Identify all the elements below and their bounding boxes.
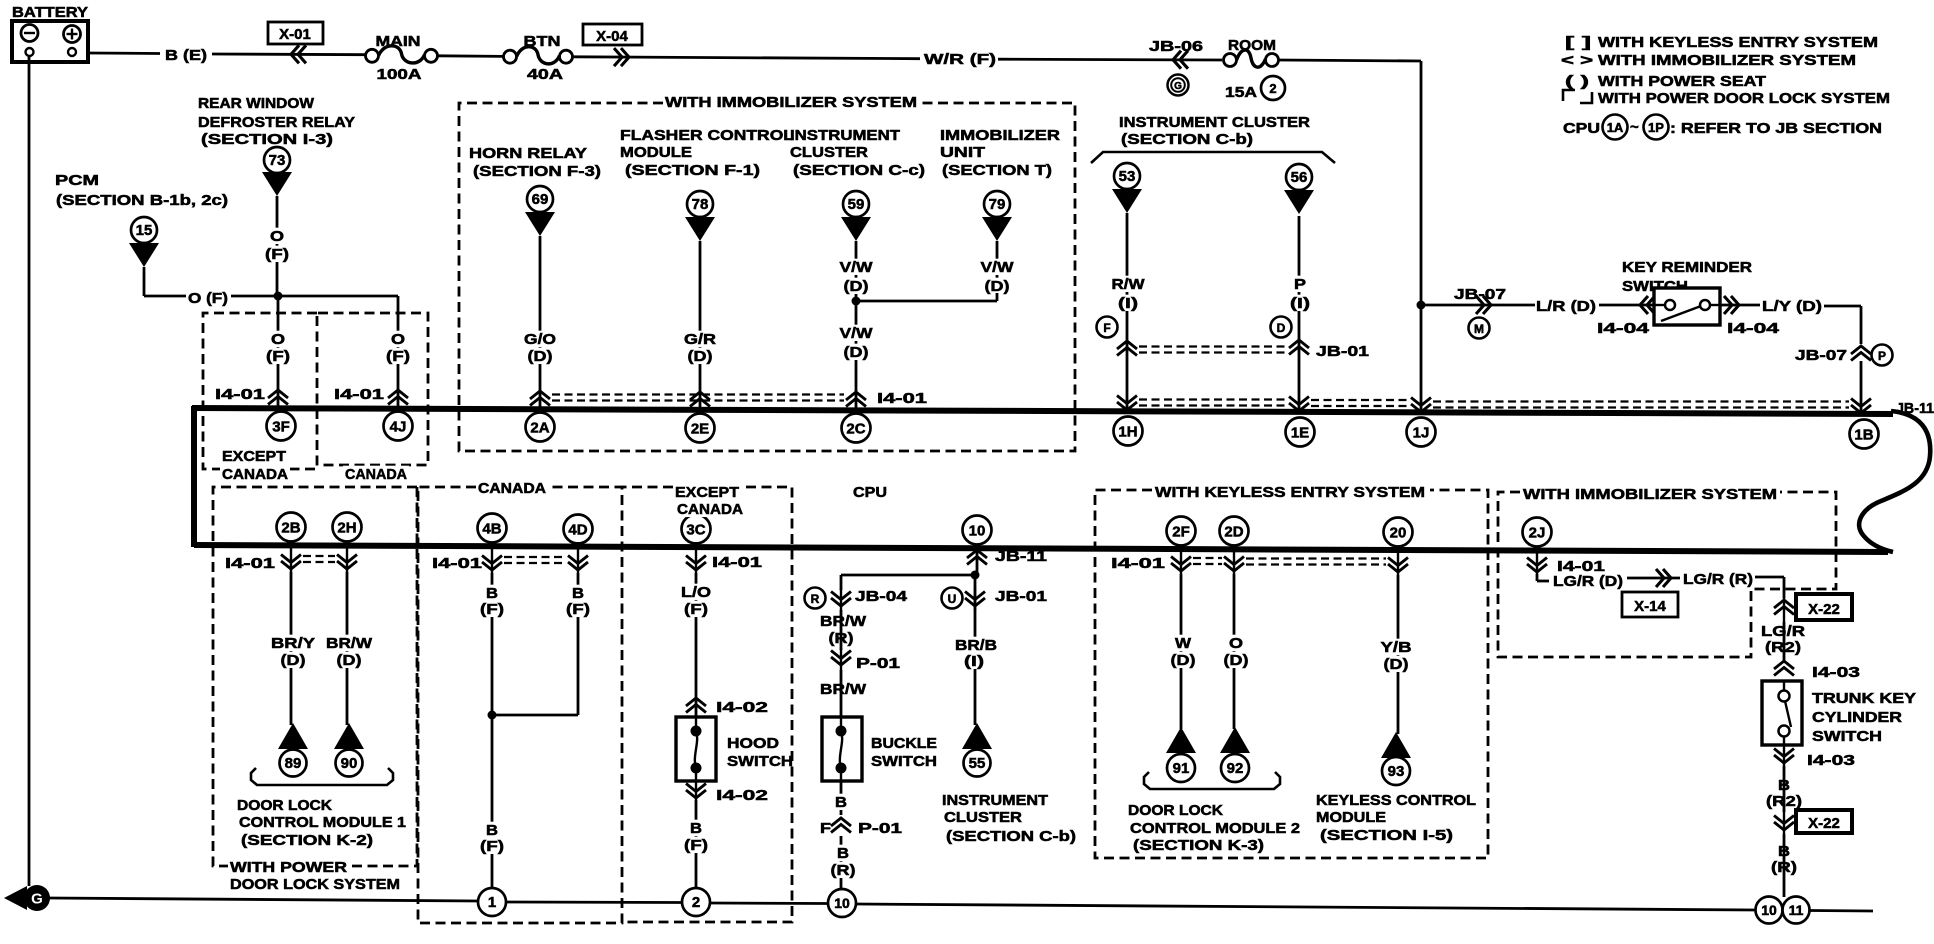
svg-text:WITH KEYLESS ENTRY SYSTEM: WITH KEYLESS ENTRY SYSTEM <box>1155 485 1425 501</box>
svg-text:DOOR LOCK: DOOR LOCK <box>1128 803 1224 819</box>
svg-text:B: B <box>486 586 498 602</box>
svg-text:73: 73 <box>269 152 286 169</box>
node 4B <box>478 514 507 543</box>
svg-text:55: 55 <box>969 755 986 772</box>
svg-text:[ ]: [ ] <box>1565 35 1591 51</box>
svg-text:1P: 1P <box>1648 120 1664 135</box>
svg-text:1B: 1B <box>1854 426 1873 443</box>
node 3F <box>267 412 296 441</box>
wire to buckle switch <box>840 670 843 717</box>
svg-text:4B: 4B <box>482 520 501 537</box>
node 1J <box>1407 418 1436 447</box>
svg-text:M: M <box>1474 322 1484 336</box>
svg-text:CANADA: CANADA <box>478 481 547 497</box>
svg-text:(D): (D) <box>688 349 713 365</box>
svg-text:2D: 2D <box>1224 523 1243 540</box>
wire hood switch to ground 2, label B(F) <box>695 800 698 902</box>
dashed box EXCEPT CANADA (upper) <box>203 313 317 469</box>
connector P-01 upper <box>831 651 851 666</box>
svg-text:P: P <box>1294 277 1306 293</box>
node 2F <box>1167 517 1196 546</box>
svg-text:JB-04: JB-04 <box>855 589 907 605</box>
svg-text:JB-01: JB-01 <box>995 589 1047 605</box>
dashed box CANADA (upper) <box>318 313 428 465</box>
svg-text:O: O <box>270 229 284 245</box>
pin 92 arrow and circle <box>1220 727 1250 753</box>
junction cpu branch <box>971 571 980 580</box>
wire vertical drop to junction and bus 1J <box>1420 61 1423 414</box>
switch BUCKLE SWITCH <box>822 717 862 781</box>
bus row2 thick wire <box>194 545 1888 552</box>
node 2A <box>526 413 555 442</box>
node 3C <box>682 515 711 544</box>
svg-text:(SECTION F-1): (SECTION F-1) <box>625 163 760 179</box>
svg-text:PCM: PCM <box>55 173 99 189</box>
svg-text:X-22: X-22 <box>1808 601 1840 618</box>
svg-text:I4-02: I4-02 <box>716 700 768 716</box>
svg-text:JB-11: JB-11 <box>995 549 1047 565</box>
pin 90 arrow and circle <box>334 723 364 749</box>
node 2E <box>686 414 715 443</box>
dashed box WITH KEYLESS ENTRY SYSTEM <box>1095 490 1488 858</box>
switch TRUNK KEY CYLINDER SWITCH <box>1762 681 1802 745</box>
svg-text:X-01: X-01 <box>279 26 311 43</box>
svg-text:79: 79 <box>989 196 1006 213</box>
node 1E <box>1286 418 1315 447</box>
ground node 2 <box>682 888 710 916</box>
wire junction to 2C, label V/W(D) <box>855 301 858 410</box>
dashed box WITH IMMOBILIZER SYSTEM (upper) <box>459 103 1075 451</box>
pin 93 arrow and circle <box>1381 732 1411 758</box>
svg-text:TRUNK KEY: TRUNK KEY <box>1812 691 1916 707</box>
svg-text:G/O: G/O <box>524 332 556 348</box>
svg-text:ROOM: ROOM <box>1228 38 1276 54</box>
wire horn relay to 2A, label G/O(D) <box>539 236 542 408</box>
svg-text:BR/W: BR/W <box>820 682 866 698</box>
wire BTN to X-04 and onward W/R(F) <box>573 57 921 59</box>
dashed pair 1H-1E-1J-1B above bus, JB-11 at right <box>1139 398 1287 400</box>
connector (F) circle <box>1097 317 1118 338</box>
brace door lock control module 2 <box>1144 772 1280 789</box>
svg-text:4J: 4J <box>390 418 407 435</box>
svg-text:I4-04: I4-04 <box>1727 321 1779 337</box>
svg-text:I4-04: I4-04 <box>1597 321 1649 337</box>
svg-text:UNIT: UNIT <box>940 145 985 161</box>
svg-text:(SECTION C-b): (SECTION C-b) <box>946 829 1076 845</box>
pin 55 arrow and circle <box>962 723 992 749</box>
svg-text:I4-01: I4-01 <box>1557 559 1605 575</box>
svg-text:1E: 1E <box>1291 424 1309 441</box>
svg-text:CPU: CPU <box>1563 121 1600 137</box>
svg-text:10: 10 <box>834 895 850 911</box>
svg-text:15: 15 <box>136 222 153 239</box>
svg-text:REAR WINDOW: REAR WINDOW <box>198 96 314 112</box>
svg-text:HORN RELAY: HORN RELAY <box>469 146 587 162</box>
wire MAIN to BTN <box>438 54 504 57</box>
svg-text:O: O <box>391 332 405 348</box>
svg-text:I4-03: I4-03 <box>1812 665 1860 681</box>
wire P to bus 1B <box>1860 361 1863 413</box>
svg-text:BR/W: BR/W <box>820 614 866 630</box>
node 4J <box>384 412 413 441</box>
node 1H <box>1114 417 1143 446</box>
svg-text:B: B <box>837 846 849 862</box>
wire ROOM fuse to right vertical drop <box>1279 60 1422 61</box>
svg-text:69: 69 <box>532 191 549 208</box>
svg-text:DOOR LOCK: DOOR LOCK <box>237 798 333 814</box>
node 4D <box>564 515 593 544</box>
brace door lock control module 1 <box>251 768 393 785</box>
svg-text:WITH POWER SEAT: WITH POWER SEAT <box>1598 74 1766 90</box>
ground node 1 <box>478 888 506 916</box>
svg-text:HOOD: HOOD <box>727 736 779 752</box>
chevron down into bus at 1B, label JB-11 <box>1851 399 1871 414</box>
label LG/R(R2) <box>1759 623 1807 639</box>
svg-text:BATTERY: BATTERY <box>12 5 88 21</box>
label B(R) and wire to ground 10 <box>840 836 843 903</box>
svg-text:L/R (D): L/R (D) <box>1536 299 1596 315</box>
svg-text:B: B <box>486 823 498 839</box>
node 2D <box>1220 517 1249 546</box>
svg-text:(F): (F) <box>566 602 590 618</box>
wire 79 elbow joining junction at 59 wire <box>996 293 999 301</box>
ground node 11 <box>1783 897 1810 924</box>
label B(R2) <box>1776 777 1792 793</box>
svg-text:JB-07: JB-07 <box>1795 348 1847 364</box>
junction V/W node <box>852 297 861 306</box>
svg-text:2E: 2E <box>691 420 709 437</box>
svg-text:BR/Y: BR/Y <box>271 636 315 652</box>
ground wire bottom <box>49 898 478 901</box>
dashed pair 4B-4D <box>504 556 566 558</box>
svg-text:2B: 2B <box>281 519 300 536</box>
dashed box WITH IMMOBILIZER SYSTEM (lower, notched) <box>1498 492 1836 657</box>
dashed box EXCEPT CANADA (lower) <box>622 486 673 489</box>
pin 91 arrow and circle <box>1166 727 1196 753</box>
svg-text:INSTRUMENT CLUSTER: INSTRUMENT CLUSTER <box>1119 115 1311 131</box>
svg-text:V/W: V/W <box>981 260 1014 276</box>
svg-text:(I): (I) <box>964 654 984 670</box>
svg-text:92: 92 <box>1227 760 1244 777</box>
svg-text:(SECTION C-c): (SECTION C-c) <box>793 163 925 179</box>
svg-text:JB-06: JB-06 <box>1149 39 1203 55</box>
svg-text:15A: 15A <box>1225 85 1258 101</box>
wire junction right and down to 4J with label O(F) <box>278 295 398 298</box>
dashed pair 2B-2H <box>303 555 335 557</box>
wire 20 to pin 93, label Y/B(D) <box>1397 575 1400 734</box>
svg-text:10: 10 <box>969 522 986 539</box>
bus left vertical thick wire <box>191 406 197 547</box>
bus right S-curve <box>1859 411 1930 552</box>
connector I4-02 lower <box>686 784 706 799</box>
svg-text:(SECTION B-1b, 2c): (SECTION B-1b, 2c) <box>56 193 228 209</box>
svg-text:DOOR LOCK SYSTEM: DOOR LOCK SYSTEM <box>230 877 400 893</box>
svg-text:WITH IMMOBILIZER SYSTEM: WITH IMMOBILIZER SYSTEM <box>1598 53 1856 69</box>
svg-text:I4-01: I4-01 <box>334 387 384 403</box>
svg-text:B (E): B (E) <box>165 48 207 64</box>
wire W/R(F) to ROOM fuse <box>998 58 1222 62</box>
svg-text:10: 10 <box>1761 902 1777 918</box>
battery <box>12 21 88 62</box>
svg-text:KEY REMINDER: KEY REMINDER <box>1622 260 1753 276</box>
svg-text:I4-01: I4-01 <box>877 391 927 407</box>
svg-text:P: P <box>1878 349 1886 363</box>
svg-text:(SECTION K-2): (SECTION K-2) <box>241 833 373 849</box>
svg-text:(R): (R) <box>831 863 856 879</box>
connector X-22 upper <box>1774 600 1794 615</box>
connector X-01 <box>268 22 323 44</box>
svg-text:89: 89 <box>285 755 302 772</box>
chevron down into bus at 1E <box>1289 397 1309 412</box>
node 1B <box>1850 420 1879 449</box>
svg-text:WITH IMMOBILIZER SYSTEM: WITH IMMOBILIZER SYSTEM <box>665 95 917 111</box>
wire immobilizer unit down, label V/W(D) <box>996 241 999 293</box>
svg-text:(D): (D) <box>528 349 553 365</box>
svg-text:78: 78 <box>692 196 709 213</box>
wire 2H to pin 90, label BR/W(D) <box>346 572 349 725</box>
svg-text:(F): (F) <box>480 839 504 855</box>
svg-text:F: F <box>1103 321 1110 335</box>
svg-text:WITH KEYLESS ENTRY SYSTEM: WITH KEYLESS ENTRY SYSTEM <box>1598 35 1878 51</box>
splice arrow to LG/R(R), connector X-14 <box>1627 577 1680 580</box>
svg-text:WITH POWER DOOR LOCK SYSTEM: WITH POWER DOOR LOCK SYSTEM <box>1598 91 1890 107</box>
wire PCM to O(F) junction <box>143 267 146 296</box>
connector I4-03 upper <box>1774 661 1794 676</box>
svg-text:(F): (F) <box>684 838 708 854</box>
svg-text:(F): (F) <box>386 349 410 365</box>
svg-text:WITH POWER: WITH POWER <box>230 860 348 876</box>
svg-text:R: R <box>811 592 820 606</box>
connector I4-04 right <box>1724 296 1739 314</box>
chevron down into bus at 1J <box>1411 398 1431 413</box>
wire below buckle switch, label B <box>840 781 843 815</box>
svg-text:D: D <box>1277 321 1286 335</box>
svg-text:(I): (I) <box>1290 296 1310 312</box>
svg-text:DEFROSTER RELAY: DEFROSTER RELAY <box>198 115 355 131</box>
svg-text:I4-01: I4-01 <box>215 387 265 403</box>
svg-text:(SECTION F-3): (SECTION F-3) <box>473 164 601 180</box>
svg-text:(SECTION I-5): (SECTION I-5) <box>1320 828 1453 844</box>
fuse circuit number 2 <box>1261 76 1285 100</box>
svg-text:BUCKLE: BUCKLE <box>871 736 937 752</box>
chevron up at F <box>1117 341 1137 356</box>
wire 2B to pin 89, label BR/Y(D) <box>290 572 293 725</box>
node 2C <box>842 414 871 443</box>
svg-text:F: F <box>820 821 831 837</box>
svg-text:O (F): O (F) <box>188 291 228 307</box>
svg-text:JB-01: JB-01 <box>1316 344 1369 360</box>
svg-text:O: O <box>1229 636 1243 652</box>
svg-text:LG/R (R): LG/R (R) <box>1683 572 1753 588</box>
dashed pair 2F-2D-20 <box>1193 557 1222 559</box>
svg-text:(SECTION K-3): (SECTION K-3) <box>1133 838 1264 854</box>
connector I4-03 lower <box>1774 749 1794 764</box>
svg-text:INSTRUMENT: INSTRUMENT <box>942 793 1048 809</box>
svg-text:91: 91 <box>1173 760 1190 777</box>
wire to X-22 lower <box>1783 766 1786 812</box>
wire defroster relay down to junction, label O(F) <box>276 196 279 296</box>
svg-text:100A: 100A <box>377 67 423 83</box>
svg-text:20: 20 <box>1390 524 1407 541</box>
bus row1 thick wire <box>192 408 1893 414</box>
chevron down into bus at 1H <box>1117 396 1137 411</box>
svg-text:SWITCH: SWITCH <box>1812 729 1882 745</box>
svg-text:(F): (F) <box>266 349 290 365</box>
svg-text:~: ~ <box>1630 119 1639 136</box>
node 2H <box>333 513 362 542</box>
svg-text:(D): (D) <box>1384 657 1409 673</box>
svg-text:G: G <box>1174 81 1182 92</box>
svg-text:53: 53 <box>1119 168 1136 185</box>
wire to P-01 <box>840 610 843 650</box>
chevron up at D, label JB-01 <box>1289 340 1309 355</box>
pin 89 arrow and circle <box>278 723 308 749</box>
wire junction to 3F with label O(F) <box>277 296 280 406</box>
wire 2F to pin 91, label W(D) <box>1180 574 1183 729</box>
connector JB-11 below node 10 <box>967 550 987 565</box>
svg-text:( ): ( ) <box>1565 74 1589 90</box>
svg-text:3C: 3C <box>686 521 705 538</box>
connector JB-01 (U) <box>942 588 963 609</box>
svg-text:FLASHER CONTROL: FLASHER CONTROL <box>620 128 794 144</box>
svg-text:B: B <box>572 586 584 602</box>
svg-text:EXCEPT: EXCEPT <box>675 485 739 501</box>
svg-text:X-04: X-04 <box>596 28 628 45</box>
dashed pair 2A-2C <box>552 393 844 395</box>
svg-text:90: 90 <box>341 755 358 772</box>
wire to switch <box>1599 304 1654 307</box>
svg-text:(D): (D) <box>337 653 362 669</box>
svg-text:4D: 4D <box>568 521 587 538</box>
switch HOOD SWITCH <box>676 717 716 781</box>
wire 56 to 1E, label P(I) <box>1298 216 1301 411</box>
svg-text:93: 93 <box>1388 763 1405 780</box>
wire to ground nodes 10 11 <box>1783 834 1786 897</box>
svg-text:I4-02: I4-02 <box>716 788 768 804</box>
svg-text:BR/B: BR/B <box>955 638 997 654</box>
svg-text:CONTROL MODULE 1: CONTROL MODULE 1 <box>239 815 406 831</box>
svg-text:(SECTION T): (SECTION T) <box>942 163 1052 179</box>
wire junction to key reminder switch, connector JB-07 (M) <box>1421 304 1535 307</box>
svg-text:2: 2 <box>1269 81 1276 96</box>
node 20 <box>1384 518 1413 547</box>
svg-text:X-22: X-22 <box>1808 815 1840 832</box>
wire cluster 59 down, label V/W(D) <box>855 241 858 301</box>
ground node 10 left <box>828 889 856 917</box>
node 2J <box>1523 518 1552 547</box>
svg-text:2A: 2A <box>530 419 549 436</box>
svg-text:59: 59 <box>848 196 865 213</box>
legend WITH POWER DOOR LOCK SYSTEM <box>1563 90 1575 101</box>
svg-text:CPU: CPU <box>853 485 887 501</box>
svg-text:(SECTION C-b): (SECTION C-b) <box>1121 132 1253 148</box>
svg-text:G: G <box>31 891 43 908</box>
svg-text:I4-01: I4-01 <box>432 556 482 572</box>
svg-text:I4-01: I4-01 <box>1111 556 1165 572</box>
dashed pair F-D <box>1139 345 1287 347</box>
svg-text:(F): (F) <box>480 602 504 618</box>
svg-text:WITH IMMOBILIZER SYSTEM: WITH IMMOBILIZER SYSTEM <box>1523 487 1777 503</box>
wire 53 to 1H, label R/W(I) <box>1126 213 1129 411</box>
svg-text:G/R: G/R <box>684 332 717 348</box>
svg-text:(D): (D) <box>844 345 869 361</box>
node 10 cpu <box>963 516 992 545</box>
svg-text:1A: 1A <box>1607 120 1624 135</box>
svg-text:1: 1 <box>488 894 496 911</box>
svg-text:CONTROL MODULE 2: CONTROL MODULE 2 <box>1130 821 1300 837</box>
svg-text:(D): (D) <box>281 653 306 669</box>
svg-text:: REFER TO JB SECTION: : REFER TO JB SECTION <box>1670 121 1882 137</box>
connector I4-04 left <box>1640 296 1655 314</box>
svg-text:L/Y (D): L/Y (D) <box>1762 299 1822 315</box>
svg-text:O: O <box>271 332 285 348</box>
wire 2J elbow to LG/R(D) <box>1536 574 1539 581</box>
label BR/W(R) <box>818 613 868 629</box>
svg-text:W: W <box>1175 636 1191 652</box>
svg-text:I4-03: I4-03 <box>1807 753 1855 769</box>
svg-text:U: U <box>948 592 957 606</box>
svg-text:40A: 40A <box>527 67 564 83</box>
junction 4B/4D <box>488 711 497 720</box>
svg-text:B: B <box>835 795 847 811</box>
node 2B <box>277 513 306 542</box>
svg-text:L/O: L/O <box>681 585 711 601</box>
svg-text:3F: 3F <box>272 418 290 435</box>
svg-text:CYLINDER: CYLINDER <box>1812 710 1903 726</box>
svg-text:2F: 2F <box>1172 523 1190 540</box>
svg-text:Y/B: Y/B <box>1381 640 1412 656</box>
svg-text:V/W: V/W <box>840 326 873 342</box>
battery B+ feed wire B(E) from battery to X-01 <box>88 52 160 55</box>
dashed box CANADA (lower) <box>418 487 622 923</box>
connector (D) circle <box>1271 317 1292 338</box>
svg-text:(SECTION I-3): (SECTION I-3) <box>201 132 333 148</box>
svg-text:I4-01: I4-01 <box>712 555 762 571</box>
svg-text:1H: 1H <box>1118 423 1137 440</box>
wire 2D to pin 92, label O(D) <box>1233 574 1236 729</box>
svg-text:R/W: R/W <box>1112 277 1145 293</box>
svg-text:SWITCH: SWITCH <box>871 754 937 770</box>
svg-text:(I): (I) <box>1118 296 1138 312</box>
svg-text:CLUSTER: CLUSTER <box>790 145 869 161</box>
svg-text:CANADA: CANADA <box>677 502 744 518</box>
wire flasher module to 2E, label G/R(D) <box>699 241 702 409</box>
label B(F) above ground circle 1 <box>484 822 500 838</box>
wire LG/R(R) to trunk key branch <box>1755 576 1784 579</box>
svg-text:56: 56 <box>1291 169 1308 186</box>
svg-text:2C: 2C <box>846 420 865 437</box>
svg-text:CLUSTER: CLUSTER <box>944 810 1023 826</box>
svg-text:(F): (F) <box>684 602 708 618</box>
svg-text:2H: 2H <box>337 519 356 536</box>
svg-text:(D): (D) <box>844 279 869 295</box>
svg-text:2: 2 <box>692 894 700 911</box>
svg-text:P-01: P-01 <box>858 821 902 837</box>
svg-text:KEYLESS CONTROL: KEYLESS CONTROL <box>1316 793 1476 809</box>
svg-text:LG/R (D): LG/R (D) <box>1553 574 1623 590</box>
wire junction down to instrument cluster 55, labels JB-01 BR/B(I) <box>974 575 977 590</box>
svg-text:MODULE: MODULE <box>620 145 692 161</box>
svg-text:BR/W: BR/W <box>326 636 372 652</box>
svg-text:CANADA: CANADA <box>222 467 289 483</box>
svg-text:MODULE: MODULE <box>1316 810 1386 826</box>
svg-text:1J: 1J <box>1413 424 1430 441</box>
svg-text:< >: < > <box>1561 53 1593 69</box>
svg-text:CANADA: CANADA <box>345 467 408 483</box>
svg-text:EXCEPT: EXCEPT <box>222 449 286 465</box>
svg-text:11: 11 <box>1789 902 1804 918</box>
connector I4-01 at 2J <box>1527 558 1547 573</box>
